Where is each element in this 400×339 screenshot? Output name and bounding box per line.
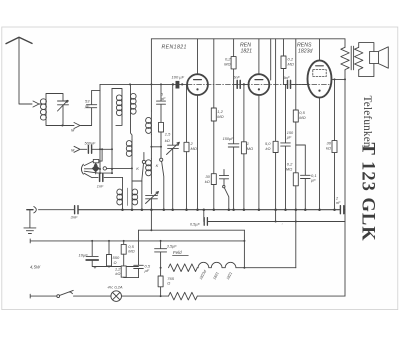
node to grid wire xyxy=(99,84,101,90)
svg-text:kΩ: kΩ xyxy=(205,179,210,184)
svg-text:µF: µF xyxy=(311,178,316,183)
svg-text:REN1821: REN1821 xyxy=(162,45,187,51)
switch contact circle xyxy=(103,167,106,170)
svg-text:3nF: 3nF xyxy=(71,215,78,220)
bottom mains line xyxy=(30,294,57,298)
coil L3 xyxy=(150,111,152,135)
capacitor 6pF column xyxy=(157,84,166,122)
svg-text:kΩ: kΩ xyxy=(115,271,120,276)
speaker xyxy=(370,47,389,68)
svg-text:pF: pF xyxy=(84,104,90,109)
vertical x112 xyxy=(111,89,113,174)
svg-text:5nF: 5nF xyxy=(233,76,240,80)
switch K2 xyxy=(160,158,163,161)
cathode wire tube1 xyxy=(197,95,199,210)
pickup fork connector xyxy=(81,164,83,174)
grid resistor column 0,2M second xyxy=(283,39,285,56)
svg-text:kΩ: kΩ xyxy=(165,138,170,143)
svg-text:K: K xyxy=(156,163,159,168)
capacitor 500pF xyxy=(88,145,91,153)
resistor 1,2k xyxy=(123,254,125,266)
transformer core xyxy=(351,46,353,70)
svg-text:1823d: 1823d xyxy=(298,49,314,55)
potentiometer diamond xyxy=(84,168,92,170)
svg-text:Telefunken: Telefunken xyxy=(361,96,373,148)
chassis bus connector xyxy=(27,209,33,211)
svg-text:3,5µF: 3,5µF xyxy=(167,245,177,249)
svg-text:Feld: Feld xyxy=(173,250,182,255)
series resistor micro xyxy=(84,149,102,165)
capacitor 1nF row xyxy=(84,173,122,177)
branch to 0,1uF xyxy=(296,145,310,210)
svg-text:100 µF: 100 µF xyxy=(172,74,185,79)
coupling capacitor 5nF first xyxy=(234,83,248,85)
coupling capacitor 5nF second xyxy=(284,83,308,85)
screen resistor column 0,2M first xyxy=(233,39,235,57)
cathode wire output tube xyxy=(319,98,321,210)
output transformer secondary xyxy=(355,47,363,70)
link to switch column xyxy=(132,180,142,182)
resistor column 5,0k xyxy=(275,39,277,142)
coil L2b xyxy=(131,140,133,189)
svg-text:+: + xyxy=(94,266,97,272)
svg-text:nF: nF xyxy=(336,201,341,205)
wire L3 to L4 xyxy=(150,135,152,159)
field coil Feld xyxy=(169,264,198,272)
ground bus xyxy=(207,221,345,223)
capacitor 3,5uF xyxy=(155,241,167,268)
svg-text:MΩ: MΩ xyxy=(286,167,292,172)
svg-text:150: 150 xyxy=(287,131,294,135)
resistor 30k left xyxy=(211,174,216,185)
primary bottom wire xyxy=(344,70,346,296)
cathode capacitor 150 column x285.5 xyxy=(281,84,291,209)
svg-text:Ω: Ω xyxy=(114,260,117,265)
heater choke row xyxy=(196,267,199,269)
resistor column 0,5M xyxy=(295,39,297,110)
column 0,5uF cap x138.5 xyxy=(134,230,144,277)
svg-text:T 123 GLK: T 123 GLK xyxy=(358,143,378,242)
resistor column 30k xyxy=(334,79,336,140)
coil L4 xyxy=(150,159,152,177)
capacitor column x224 xyxy=(219,170,228,186)
transformer bottom links xyxy=(116,114,132,140)
main bus xyxy=(78,209,340,211)
variable capacitor C1 arrow xyxy=(58,100,68,111)
tube REN1821 first xyxy=(187,74,208,95)
resistor 1,5k xyxy=(159,122,164,132)
screen wire output xyxy=(331,78,345,80)
svg-text:MΩ: MΩ xyxy=(217,114,223,119)
column below bus xyxy=(150,210,152,231)
antenna transformer secondary xyxy=(130,84,132,114)
coil L1 loops xyxy=(40,99,46,104)
trimmer capacitor bottom xyxy=(146,192,159,210)
grid capacitor 100pF xyxy=(176,81,180,89)
transformer core xyxy=(126,188,128,206)
tuned circuit L1 frame xyxy=(46,94,74,126)
series capacitor 3nF xyxy=(75,206,78,214)
output IF transformer left coil xyxy=(122,177,124,209)
svg-text:150µF: 150µF xyxy=(223,137,235,141)
vertical from grid to M row xyxy=(99,90,101,173)
variable capacitor C1 plates xyxy=(58,101,69,105)
svg-text:0,5µF: 0,5µF xyxy=(190,223,200,227)
svg-text:K: K xyxy=(136,166,139,171)
link wire xyxy=(151,146,161,148)
svg-text:MΩ: MΩ xyxy=(247,146,253,151)
ground symbol xyxy=(24,210,36,234)
barretter zigzag xyxy=(169,292,198,300)
bridge capacitor 0,5uF xyxy=(203,210,205,222)
corner column x244.4 xyxy=(243,230,245,268)
rail drop x151.4 xyxy=(150,39,152,111)
svg-text:MΩ: MΩ xyxy=(299,115,305,120)
svg-text:4,5W: 4,5W xyxy=(30,264,41,269)
column x295.3 xyxy=(295,210,297,268)
wire A xyxy=(139,229,245,231)
bus end capacitor 2nF xyxy=(340,206,343,214)
svg-text:MΩ: MΩ xyxy=(224,62,230,67)
svg-text:500µF: 500µF xyxy=(85,141,97,145)
wire stub row xyxy=(84,171,112,173)
svg-text:MΩ: MΩ xyxy=(128,248,134,253)
svg-text:kΩ: kΩ xyxy=(265,146,270,151)
dial lamp xyxy=(111,291,122,302)
output IF transformer right coil xyxy=(131,189,133,210)
svg-text:µF: µF xyxy=(145,268,150,273)
svg-text:MΩ: MΩ xyxy=(191,146,197,151)
grid wire g1 xyxy=(100,83,187,85)
capacitor 150 on x233.6 xyxy=(228,144,239,210)
svg-text:kΩ: kΩ xyxy=(326,146,331,151)
antenna xyxy=(6,37,32,43)
switch K1 xyxy=(143,153,145,161)
svg-text:µF: µF xyxy=(287,135,292,139)
svg-text:5nF: 5nF xyxy=(283,76,290,80)
resistor 2M xyxy=(186,84,188,142)
anode supply rail xyxy=(151,38,345,40)
electrolytic 10uF xyxy=(86,241,98,257)
antenna connector plug xyxy=(33,101,46,107)
secondary loop to speaker xyxy=(359,43,374,77)
svg-text:MΩ: MΩ xyxy=(288,62,294,67)
tube REN1821 second xyxy=(249,74,270,95)
svg-text:1821: 1821 xyxy=(241,49,253,55)
output tube PENS1823d xyxy=(308,60,332,97)
svg-text:4V, 0,2A: 4V, 0,2A xyxy=(108,284,123,289)
output transformer primary xyxy=(344,39,346,48)
wire B heater feed xyxy=(30,239,244,243)
wire to coil column xyxy=(107,167,132,169)
svg-text:pF: pF xyxy=(160,96,166,101)
svg-text:1,5: 1,5 xyxy=(165,132,171,137)
switch z xyxy=(223,185,225,187)
grid resistor column 1,2M xyxy=(213,39,215,108)
svg-text:1nF: 1nF xyxy=(97,185,104,189)
resistor 0,2M lower xyxy=(293,173,298,186)
screen drop x270.7 xyxy=(270,39,272,80)
cathode wire tube2 xyxy=(258,95,260,210)
grid resistor column 1M xyxy=(243,84,245,141)
mains switch xyxy=(57,295,60,298)
resistor 550 xyxy=(108,241,110,255)
svg-text:10µF: 10µF xyxy=(79,252,89,257)
wire L4 to trimmer xyxy=(150,177,152,194)
connector M upper xyxy=(74,123,92,129)
trimmer column x172.7 xyxy=(167,84,180,209)
svg-text:Ω: Ω xyxy=(167,281,170,286)
antenna transformer primary xyxy=(112,89,122,117)
resistor 0,5M top xyxy=(123,241,125,245)
connector M lower xyxy=(74,146,87,152)
resistor 765 xyxy=(160,268,162,276)
capacitor 53pF xyxy=(87,90,101,125)
heater dash-dot line xyxy=(187,84,331,86)
